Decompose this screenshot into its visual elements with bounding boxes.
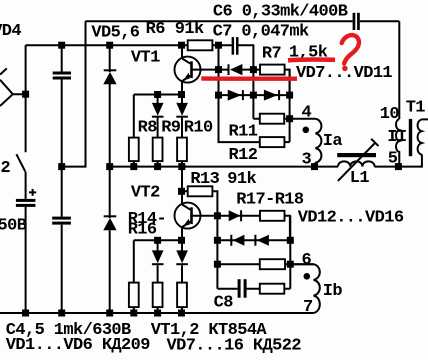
wire R16 column <box>181 240 183 282</box>
svg-text:7: 7 <box>303 298 313 317</box>
svg-text:R10: R10 <box>184 119 213 138</box>
resistor R17 <box>260 211 285 221</box>
svg-text:T1: T1 <box>406 99 426 118</box>
node dot R13 <box>178 188 185 195</box>
wire R7 to diode row 2 <box>285 70 290 96</box>
wire bottom bus <box>0 312 314 314</box>
svg-text:91k: 91k <box>175 20 204 39</box>
diode row2 left <box>228 90 243 101</box>
svg-text:6: 6 <box>302 251 312 270</box>
resistor R18 <box>260 259 285 269</box>
wire resistor bottoms to mid bus <box>134 161 182 167</box>
diode VD13 <box>231 235 244 246</box>
resistor R15 <box>153 283 163 308</box>
svg-text:Ib: Ib <box>323 282 343 301</box>
svg-text:VD4: VD4 <box>0 22 21 41</box>
wire diode row2 <box>219 94 290 96</box>
resistor R16 <box>177 283 187 308</box>
svg-text:VT2: VT2 <box>131 184 160 203</box>
wire C8 row <box>217 288 290 290</box>
resistor R8 <box>129 138 139 162</box>
svg-text:L1: L1 <box>350 169 370 188</box>
wire base divider column A <box>219 45 260 142</box>
resistor row C8 <box>260 284 285 294</box>
diode above R15 <box>152 250 164 264</box>
svg-text:R11: R11 <box>229 123 258 142</box>
svg-text:4: 4 <box>302 103 312 122</box>
diode VD14 <box>255 235 269 246</box>
diode above R16 <box>176 250 188 264</box>
wire left AC column <box>25 45 27 152</box>
resistor R10 <box>177 138 187 162</box>
resistor R12 <box>260 137 285 147</box>
red question mark <box>342 35 359 71</box>
wire T1 primary feed <box>398 21 400 119</box>
capacitor C6 <box>353 13 360 30</box>
svg-text:VD1...VD6 КД209: VD1...VD6 КД209 <box>6 336 150 355</box>
wire right column VT2 block <box>289 216 291 289</box>
node dots top wire <box>58 42 222 49</box>
diode row2 right <box>264 90 279 101</box>
wire VD5/VD6 column <box>109 45 111 313</box>
polarity plus <box>29 189 36 196</box>
wire emitter row y240.3 <box>134 240 182 282</box>
svg-text:2: 2 <box>1 159 11 178</box>
wire R10 column top <box>181 95 183 138</box>
wire top rail <box>86 20 400 22</box>
wire C4/C5 column <box>61 45 63 313</box>
bridge rectifier VD1-VD4 partial <box>0 68 26 106</box>
diode above R9 <box>152 103 164 117</box>
diode VD12 <box>229 210 241 221</box>
resistor R13 <box>188 186 213 196</box>
svg-text:50B: 50B <box>0 217 27 236</box>
transistor VT1 <box>175 45 219 94</box>
capacitor C4 <box>53 72 71 80</box>
winding T1 right <box>418 119 428 155</box>
transistor VT2 <box>175 203 218 241</box>
svg-text:3: 3 <box>302 150 312 169</box>
wire R15 column <box>157 240 159 282</box>
wire mid bus y166.6 <box>110 166 338 168</box>
svg-text:C7 0,047mk: C7 0,047mk <box>213 22 309 41</box>
wire R9 column top <box>157 95 159 138</box>
resistor R14 <box>129 283 139 308</box>
wire row 6 <box>217 263 313 265</box>
node dots emitter row VT1 <box>154 91 185 98</box>
svg-text:II: II <box>387 128 406 147</box>
svg-text:R16: R16 <box>128 221 157 240</box>
resistor R6 <box>188 40 213 50</box>
wire VD13 VD14 row <box>217 239 290 241</box>
resistor R9 <box>153 138 163 162</box>
core T1 <box>409 119 412 156</box>
red horizontal annotation line <box>201 76 297 81</box>
transformer T1 winding II <box>396 119 399 167</box>
wire right column rows <box>289 70 291 143</box>
wire left drop from rail to lower jog <box>62 21 86 166</box>
wire below switch <box>25 172 27 313</box>
node dots VT2 rows <box>154 237 294 268</box>
node dot VT2 base <box>214 212 221 219</box>
resistor R7 <box>260 65 285 75</box>
inductor L1 <box>337 139 378 181</box>
wire emitter row y94.5 <box>134 95 182 138</box>
svg-text:VD7...16 КД522: VD7...16 КД522 <box>167 337 302 356</box>
node dots mid bus <box>58 163 402 170</box>
polarity dot Ia <box>303 127 310 134</box>
wire R13 row <box>182 167 217 289</box>
winding Ia <box>315 119 322 167</box>
capacitor C8 <box>238 279 247 298</box>
diode VD5 <box>103 70 116 84</box>
svg-text:91k: 91k <box>227 170 256 189</box>
winding Ib <box>290 264 320 313</box>
switch blade <box>16 154 25 171</box>
diode above R10 <box>176 103 188 117</box>
svg-text:VD12...VD16: VD12...VD16 <box>298 208 404 227</box>
svg-text:R6: R6 <box>146 20 166 39</box>
resistor R11 <box>260 114 284 124</box>
capacitor C5 <box>52 217 71 225</box>
red underline 1,5k <box>288 57 335 62</box>
capacitor C7 <box>232 37 239 55</box>
svg-text:R12: R12 <box>229 146 258 165</box>
diode VD6 <box>103 216 116 230</box>
svg-text:C8: C8 <box>214 294 234 313</box>
capacitor electrolytic plates <box>16 199 36 207</box>
svg-text:Ia: Ia <box>323 132 343 151</box>
svg-text:C6 0,33mk/400B: C6 0,33mk/400B <box>213 2 348 21</box>
polarity dot Ib <box>304 273 311 280</box>
wire VD12 row <box>217 216 290 241</box>
diode VD7 <box>219 64 261 75</box>
wire R12 right lead <box>284 141 289 143</box>
node dots bottom bus <box>22 310 185 317</box>
wire resistor bottoms to ground bus <box>134 307 182 313</box>
svg-text:R7: R7 <box>262 44 282 63</box>
svg-text:VT1: VT1 <box>131 49 160 68</box>
svg-text:R9: R9 <box>161 119 181 138</box>
svg-text:R13: R13 <box>190 170 219 189</box>
wire top bus y=45 <box>26 45 254 119</box>
svg-text:VD5,6: VD5,6 <box>91 24 139 43</box>
wire R11 leads <box>253 118 315 120</box>
svg-text:R8: R8 <box>138 119 158 138</box>
svg-text:R17-R18: R17-R18 <box>236 190 304 209</box>
svg-text:10: 10 <box>380 105 400 124</box>
node bridge output <box>22 91 29 98</box>
node dots VD7 rows <box>215 66 293 122</box>
